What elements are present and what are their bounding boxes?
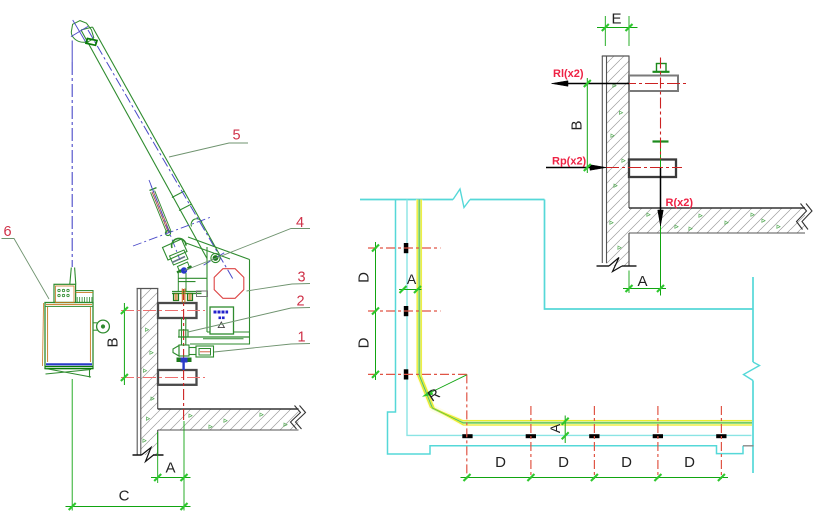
centerline upper anchor (red) xyxy=(121,310,205,312)
leader item 6 xyxy=(2,239,50,300)
boom centerline (blue) xyxy=(88,30,233,279)
control panel (item 2) xyxy=(210,307,234,334)
bucket legs xyxy=(46,369,92,378)
rail anchor mark 6 xyxy=(589,434,599,438)
boom tube xyxy=(81,27,220,259)
pulley head xyxy=(71,20,94,43)
svg-text:A: A xyxy=(165,460,175,477)
bucket handle xyxy=(93,320,109,333)
force arrow R xyxy=(658,168,664,226)
rod perpendicular centerline (blue) xyxy=(133,217,211,246)
bucket grate xyxy=(76,291,93,303)
edge stub (gray) xyxy=(743,445,754,447)
anchor centerline 8 (red) xyxy=(720,406,722,479)
bolt right (orange) xyxy=(188,294,193,301)
svg-text:1: 1 xyxy=(297,330,305,346)
force arrow Rp xyxy=(546,165,607,171)
rail anchor mark 1 (vertical run) xyxy=(404,243,409,253)
anchor centerline 7 (red) xyxy=(657,406,659,479)
building edge far right (cyan) xyxy=(744,277,760,473)
building edge top (cyan) xyxy=(360,189,545,208)
anchor centerline corner horizontal (red) xyxy=(368,373,467,375)
break mark slab right end (section) xyxy=(797,204,813,230)
leader item 1 xyxy=(214,344,310,353)
break mark wall bottom (left view) xyxy=(133,448,164,462)
parapet outer edge (cyan) xyxy=(388,200,744,455)
tension rod (threaded) xyxy=(150,186,172,234)
svg-text:D: D xyxy=(356,337,373,348)
svg-text:B: B xyxy=(104,337,121,347)
mast gusset frame xyxy=(178,237,250,344)
concrete triangle marks (section) xyxy=(610,84,780,249)
concrete triangle marks (left view) xyxy=(143,328,287,442)
bolt head symbol upper (green) xyxy=(653,64,670,72)
anchor bolt lower (section) xyxy=(629,160,676,178)
dimension D column (plan left) xyxy=(372,242,379,380)
bolt left (orange) xyxy=(174,294,179,301)
winch lower fittings xyxy=(170,250,191,273)
building edge right step (cyan) xyxy=(545,200,754,310)
svg-text:Rl(x2): Rl(x2) xyxy=(553,68,584,80)
handwheel octagon (item 3) xyxy=(214,269,244,299)
pivot perpendicular centerline (blue) xyxy=(204,251,228,265)
svg-text:A: A xyxy=(547,423,563,433)
wall hatch fill (section) xyxy=(607,56,806,266)
centerline lower bolt (red) xyxy=(606,167,682,169)
hoist rope centerline (blue) xyxy=(71,41,73,268)
drive unit (item 1) xyxy=(173,345,214,357)
rod axis centerline (blue) xyxy=(149,180,180,260)
svg-text:5: 5 xyxy=(232,128,240,144)
rail anchor mark 7 xyxy=(653,434,663,438)
mount plate with bolts xyxy=(172,272,208,297)
svg-text:D: D xyxy=(558,454,569,471)
bucket body (item 6) xyxy=(43,303,94,369)
wall outline (left view) xyxy=(137,289,159,456)
cable clamp at boom tip xyxy=(86,39,97,46)
rail anchor mark 4 (horizontal run) xyxy=(462,434,472,438)
monorail track xyxy=(417,200,752,426)
anchor centerline corner vertical (red) xyxy=(466,374,468,479)
dimension B (left view) xyxy=(121,303,128,385)
force arrow Rl xyxy=(552,81,630,87)
break mark slab right end (left view) xyxy=(291,406,306,430)
leader item 3 xyxy=(247,284,311,292)
dimension A (plan left) xyxy=(399,286,422,293)
leader item 5 xyxy=(169,143,248,157)
dimension A (section) xyxy=(623,271,666,294)
centerline mast vertical (red) xyxy=(183,289,185,421)
floor slab (left view) xyxy=(158,409,299,430)
svg-text:D: D xyxy=(356,272,373,283)
anchor sleeve lower (left view) xyxy=(158,370,197,385)
anchor sleeve upper (left view) xyxy=(158,303,197,318)
svg-text:C: C xyxy=(119,488,130,505)
svg-text:D: D xyxy=(495,454,506,471)
mast column between anchors xyxy=(179,318,188,345)
svg-text:Rp(x2): Rp(x2) xyxy=(552,156,587,168)
rail anchor mark 3 (corner) xyxy=(404,369,409,379)
radius leader R (plan corner) xyxy=(423,375,467,397)
anchor centerline 1 (red) xyxy=(368,247,441,249)
svg-text:3: 3 xyxy=(297,270,305,286)
svg-text:2: 2 xyxy=(296,294,304,310)
svg-text:D: D xyxy=(621,454,632,471)
dimension B (section) xyxy=(584,78,591,173)
leader item 4 xyxy=(185,229,311,271)
dimension A (left view) xyxy=(151,421,191,483)
break mark wall bottom (section) xyxy=(597,258,637,272)
hitch pin (blue) xyxy=(177,266,192,273)
rail anchor mark 5 xyxy=(526,434,536,438)
rod pivot xyxy=(166,231,171,236)
dimension C (left view) xyxy=(66,379,191,511)
wall hatch fill (left view) xyxy=(141,289,299,456)
lower hitch (blue) xyxy=(177,358,192,371)
rail anchor mark 8 xyxy=(716,434,726,438)
bucket top bracket xyxy=(54,268,76,303)
svg-text:R(x2): R(x2) xyxy=(666,197,694,209)
floor slab (section) xyxy=(629,208,805,233)
svg-text:4: 4 xyxy=(296,215,304,231)
wall outline (section) xyxy=(602,56,630,266)
svg-text:B: B xyxy=(569,120,586,130)
anchor centerline extension (green) xyxy=(660,143,662,296)
anchor centerline 5 (red) xyxy=(530,406,532,479)
anchor centerline 2 (red) xyxy=(368,310,441,312)
dimension E (section) xyxy=(597,16,638,46)
boom pivot xyxy=(211,253,220,262)
svg-text:6: 6 xyxy=(3,224,11,240)
centerline upper bolt (red) xyxy=(601,83,686,85)
dimension row D (plan bottom) xyxy=(461,474,729,481)
center stud (orange) xyxy=(182,289,185,303)
dimension A (plan bottom) xyxy=(562,416,569,444)
svg-text:A: A xyxy=(407,271,417,287)
anchor centerline 6 (red) xyxy=(593,406,595,479)
centerline lower anchor (red) xyxy=(121,377,205,379)
svg-text:D: D xyxy=(684,454,695,471)
rail anchor mark 2 (vertical run) xyxy=(404,306,409,316)
centerline bolts vertical (red) xyxy=(660,58,662,160)
svg-text:E: E xyxy=(611,11,621,28)
wall face line (cyan) xyxy=(407,200,752,436)
bolt head symbol lower (green) xyxy=(653,140,669,142)
winch housing xyxy=(163,238,188,260)
leader item 2 xyxy=(188,308,310,333)
svg-text:A: A xyxy=(637,273,647,290)
anchor bolt upper (section) xyxy=(629,76,678,92)
